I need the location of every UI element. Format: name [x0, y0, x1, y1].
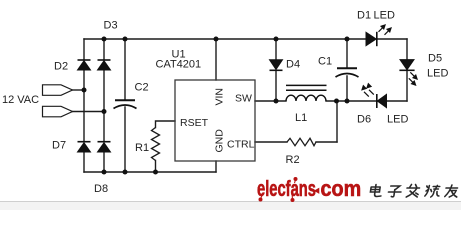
pin label GND [214, 129, 226, 153]
LED D1 [366, 25, 391, 46]
svg-text:SW: SW [235, 93, 252, 105]
char dian [370, 185, 383, 197]
node bottom R1 junction [153, 170, 158, 175]
svg-text:VIN: VIN [214, 88, 226, 106]
bottom separator band [0, 202, 461, 211]
wire input top [73, 89, 85, 91]
svg-text:GND: GND [214, 129, 226, 153]
svg-text:D2: D2 [54, 61, 68, 73]
wire LED bottom return [347, 100, 407, 102]
connector J1 top [43, 85, 73, 96]
diode D2 [78, 60, 91, 70]
svg-text:C2: C2 [135, 82, 149, 94]
svg-text:12 VAC: 12 VAC [2, 94, 39, 106]
svg-text:D4: D4 [286, 59, 300, 71]
node top VIN junction [214, 37, 219, 42]
svg-text:R1: R1 [135, 142, 149, 154]
svg-text:D3: D3 [104, 20, 118, 32]
diode D4 [270, 60, 283, 71]
label 12 VAC [2, 94, 39, 106]
wire R2 to output [336, 101, 338, 142]
label C2 [135, 82, 149, 94]
svg-text:D5: D5 [428, 53, 442, 65]
char fa [406, 185, 420, 198]
label U1 [172, 49, 186, 61]
node bottom D8 junction [102, 170, 107, 175]
node output C1 junction [345, 99, 350, 104]
capacitor C2 [114, 100, 137, 108]
label D5 [428, 53, 442, 65]
node top C2 junction [123, 37, 128, 42]
diode D7 [78, 142, 91, 152]
wire bottom rail [84, 171, 216, 173]
svg-text:com: com [321, 177, 362, 201]
label D7 [52, 140, 66, 152]
connector J2 bottom [43, 106, 73, 117]
svg-text:D6: D6 [357, 114, 371, 126]
svg-text:CAT4201: CAT4201 [156, 59, 202, 71]
svg-text:D8: D8 [94, 183, 108, 195]
resistor R1 [152, 128, 160, 161]
wire GND drop [215, 161, 217, 172]
diode D8 [98, 142, 111, 152]
pin label RSET [180, 117, 209, 129]
pin label VIN [214, 88, 226, 106]
label D6 [357, 114, 371, 126]
wire right LED rail [406, 39, 408, 101]
label D6 LED [387, 114, 408, 126]
svg-text:LED: LED [427, 68, 448, 80]
wire C1 branch [346, 39, 348, 101]
wire bridge left leg [83, 39, 85, 172]
wire input bottom [73, 111, 105, 113]
label D5 LED [427, 68, 448, 80]
node top C1 junction [345, 37, 350, 42]
char you [445, 185, 459, 197]
label D8 [94, 183, 108, 195]
wire CTRL [255, 141, 337, 143]
svg-text:CTRL: CTRL [227, 139, 255, 151]
label L1 [295, 112, 307, 124]
node input top junction [82, 88, 87, 93]
wire D4 branch [275, 39, 277, 101]
svg-text:D7: D7 [52, 140, 66, 152]
label R1 [135, 142, 149, 154]
label R2 [286, 154, 300, 166]
node top D4 junction [274, 37, 279, 42]
node output R2 junction [334, 99, 339, 104]
node input bottom junction [102, 109, 107, 114]
svg-text:C1: C1 [318, 56, 332, 68]
label D4 [286, 59, 300, 71]
label D1 [357, 10, 371, 22]
LED D6 [362, 84, 387, 108]
wire VIN drop [215, 39, 217, 80]
svg-text:R2: R2 [286, 154, 300, 166]
char shao [425, 186, 441, 198]
watermark chinese 电子发烧友 [370, 185, 459, 198]
wire bridge right leg [103, 39, 105, 172]
pin label CTRL [227, 139, 255, 151]
svg-text:LED: LED [374, 10, 395, 22]
resistor R2 [287, 138, 316, 145]
svg-text:L1: L1 [295, 112, 307, 124]
LED D5 [399, 60, 417, 86]
wire top rail [84, 38, 407, 40]
logo elecfans.com [257, 176, 361, 202]
op-amp U1 box CAT4201 [175, 80, 255, 161]
svg-text:elecfans: elecfans [257, 176, 316, 201]
pin label SW [235, 93, 252, 105]
node SW D4 junction [274, 99, 279, 104]
label D1 LED [374, 10, 395, 22]
label C1 [318, 56, 332, 68]
svg-text:LED: LED [387, 114, 408, 126]
wire SW output node [255, 100, 347, 102]
wire RSET to R1 [156, 121, 176, 172]
label CAT4201 [156, 59, 202, 71]
inductor L1 [286, 85, 327, 101]
wire C2 leg [124, 39, 126, 172]
node bottom C2 junction [123, 170, 128, 175]
diode D3 [98, 60, 111, 70]
capacitor C1 [336, 68, 359, 77]
svg-text:D1: D1 [357, 10, 371, 22]
label D3 [104, 20, 118, 32]
label D2 [54, 61, 68, 73]
svg-text:RSET: RSET [180, 117, 209, 129]
node top D3 junction [102, 37, 107, 42]
char zi [388, 186, 402, 197]
